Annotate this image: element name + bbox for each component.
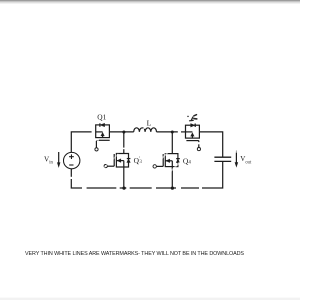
bottom border shade xyxy=(0,297,300,298)
Q3 body diode bar xyxy=(127,158,131,160)
Q4 body diode bar xyxy=(176,158,180,160)
Q1 gate terminal circle xyxy=(95,148,98,151)
Q2 gate lead upper part xyxy=(198,141,200,143)
transistor Q4 body box xyxy=(165,154,178,167)
watermark slash over Q3 top-left corner xyxy=(113,154,119,160)
Q2 gate lead lower part xyxy=(198,144,200,147)
transistor Q3 body box xyxy=(116,154,128,168)
Q2 channel arrow head xyxy=(191,133,195,137)
wire: right branch below capacitor and bottom rail first segment xyxy=(202,161,223,188)
Q1 body diode triangle xyxy=(100,123,104,127)
wire: bottom rail segment xyxy=(181,187,199,189)
wire: node A down toward Q3 drain xyxy=(123,132,125,148)
wire: bottom rail segment left of node C xyxy=(87,187,117,189)
Vout arrow faded top xyxy=(235,150,237,152)
Q3 gate bar xyxy=(113,154,115,166)
Q4 channel arrow head xyxy=(166,159,170,163)
Q4 source line down to bottom rail xyxy=(171,161,173,188)
Q3 channel arrow head xyxy=(117,159,121,163)
voltage source Vin circle xyxy=(63,152,79,168)
wire: Vin bottom lead xyxy=(70,169,72,177)
svg-text:VERY THIN WHITE LINES ARE WATE: VERY THIN WHITE LINES ARE WATERMARKS- TH… xyxy=(25,251,244,257)
Vin minus sign xyxy=(69,164,73,166)
Vin plus sign xyxy=(69,154,74,159)
watermark white slashes xyxy=(103,128,182,173)
node C junction dot xyxy=(122,186,125,189)
wire: bottom rail segment right of node C xyxy=(120,187,127,189)
watermark slash over Q4 top-left corner xyxy=(162,151,169,158)
wire: bottom rail segment to node D xyxy=(156,187,176,189)
Q4 body diode triangle xyxy=(176,159,180,163)
Q4 gate terminal circle xyxy=(153,165,156,168)
Vout arrow xyxy=(235,153,239,168)
wire: node B down to Q4 drain xyxy=(171,132,173,154)
capacitor C top plate xyxy=(214,156,231,158)
node D junction dot xyxy=(171,186,174,189)
Q1 gate lead xyxy=(95,141,97,148)
inductor L xyxy=(134,128,157,132)
transistor Q2 body box xyxy=(186,125,200,138)
watermark slash over Q4 bottom-right corner xyxy=(169,160,181,172)
wire: top rail into Q1 drain xyxy=(96,131,103,133)
Q2 gate terminal circle xyxy=(197,148,200,151)
node A junction dot xyxy=(122,130,125,133)
wire: top rail into Q2 drain xyxy=(181,131,192,133)
wire: top rail from Q1 to node A xyxy=(109,131,133,133)
watermark slash over Q3 gate circle xyxy=(103,164,109,170)
Q2 body diode triangle xyxy=(191,124,195,128)
Q2 gate bar xyxy=(186,140,198,142)
watermark slash over inductor hump xyxy=(138,128,144,134)
Q3 body diode triangle xyxy=(127,159,131,163)
Q3 channel arrow line xyxy=(116,160,123,162)
Q4 channel arrow line xyxy=(165,160,172,162)
wire: top rail from Q2 to output corner xyxy=(199,132,222,157)
Q3 source line down to bottom rail xyxy=(123,161,125,188)
Q1 channel arrow head xyxy=(101,132,105,136)
wire: Vin top lead and top rail to watermark gap xyxy=(71,132,91,152)
svg-text:L: L xyxy=(147,118,152,127)
Q2 body diode bar xyxy=(194,124,196,128)
Q4 gate lead xyxy=(157,165,164,167)
transistor Q1 body box xyxy=(96,125,110,138)
label Q2 (fragments left by watermark) xyxy=(187,115,197,121)
Q3 gate terminal circle xyxy=(104,165,107,168)
Q1 gate elbow (faded) xyxy=(96,139,99,142)
wire: top rail from inductor to node B and watermark gap xyxy=(157,131,178,133)
Q1 source stub xyxy=(102,135,104,137)
Vin current arrow xyxy=(57,152,60,168)
wire: bottom rail segment from node D area xyxy=(130,187,152,189)
wire: bottom rail left corner and riser xyxy=(71,179,82,188)
Q1 gate bar xyxy=(99,139,110,141)
wire: Q3 drain lead below watermark gap xyxy=(123,149,125,153)
capacitor C bottom plate xyxy=(214,160,231,162)
top border line xyxy=(0,0,300,1)
svg-text:Q1: Q1 xyxy=(97,112,106,121)
Q4 gate bar xyxy=(162,154,164,166)
Q1 body diode bar xyxy=(99,123,101,127)
node B junction dot xyxy=(171,131,174,134)
Q2 source stub xyxy=(191,136,193,138)
Q3 gate lead xyxy=(107,165,114,167)
